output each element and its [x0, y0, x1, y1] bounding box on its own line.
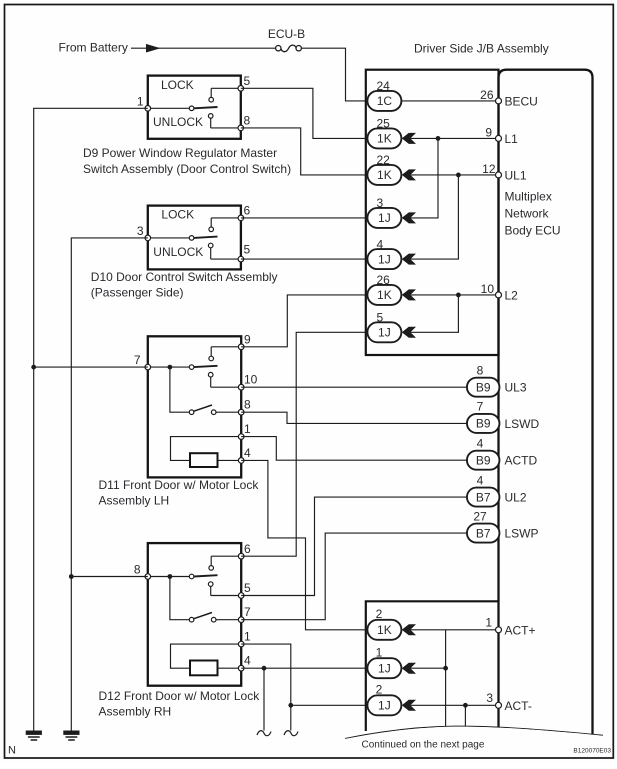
svg-text:B7: B7 [476, 526, 491, 540]
switch box D9 [148, 76, 241, 139]
svg-text:1: 1 [137, 94, 144, 108]
label UL3 [505, 381, 527, 395]
svg-text:5: 5 [244, 581, 251, 595]
arrow into 1J(1) [402, 663, 416, 674]
wire from battery to fuse [131, 44, 276, 53]
svg-text:26: 26 [377, 273, 391, 287]
svg-text:5: 5 [244, 243, 251, 257]
svg-text:7: 7 [134, 353, 141, 367]
junction dot ACT net [443, 666, 448, 671]
wire D11 pin7 to pivot [148, 366, 190, 368]
switch box D11 [148, 336, 241, 477]
svg-text:1: 1 [376, 645, 383, 659]
svg-text:Assembly RH: Assembly RH [99, 704, 172, 718]
switch arm D9 [189, 106, 217, 111]
ground G1 [26, 731, 42, 741]
label LSWD [505, 417, 540, 431]
wire D11 pin8 to connector B9 LSWD [241, 412, 467, 423]
wire D10 pin5 to connector 1J(4) [241, 258, 368, 260]
key switch D11 [189, 405, 241, 415]
wire L1 branch to 1J(3) [411, 138, 438, 218]
contact D11 unlock [208, 372, 241, 387]
junction block J/B box upper [366, 70, 499, 355]
switch arm D12 selector [189, 574, 217, 579]
svg-text:L1: L1 [505, 132, 519, 146]
pin 10 L2 of ECU [481, 282, 519, 303]
label UNLOCK (D10) [153, 245, 203, 259]
svg-text:N: N [8, 745, 16, 757]
wire D12 pin1 to connector 1J(2) [241, 644, 367, 705]
svg-text:9: 9 [244, 333, 251, 347]
svg-text:4: 4 [377, 237, 384, 251]
wire 1K(26) to ECU L2 [411, 294, 499, 296]
label LSWP [505, 527, 539, 541]
squiggle continuation mark right [284, 731, 298, 736]
label LOCK (D10) [161, 208, 194, 222]
pin 8 of D12 [134, 563, 151, 580]
svg-text:1J: 1J [378, 699, 391, 713]
pin 12 UL1 of ECU [482, 162, 527, 183]
wire rail B from D10 pin3 to ground [71, 238, 148, 731]
svg-text:ECU-B: ECU-B [268, 27, 305, 41]
wire fuse to connector 1C [301, 48, 367, 101]
svg-text:10: 10 [244, 373, 258, 387]
contact D9 lock [209, 88, 241, 102]
pin 8 of D9 [238, 113, 251, 130]
svg-text:25: 25 [377, 117, 391, 131]
wire connector B7 UL2 to D12 pin5 [241, 497, 467, 595]
wire 1K(25) to ECU L1 [411, 137, 499, 139]
wire rail B to D12 pin8 [71, 576, 148, 578]
svg-text:UNLOCK: UNLOCK [153, 115, 203, 129]
junction dot ACT- net [463, 703, 468, 708]
svg-text:3: 3 [137, 224, 144, 238]
svg-text:D11 Front Door w/ Motor Lock: D11 Front Door w/ Motor Lock [99, 478, 260, 492]
wire 1J(1) to ACT+ net [411, 667, 446, 669]
svg-text:1J: 1J [378, 211, 391, 225]
pin 1 of D11 [238, 422, 251, 439]
svg-text:B7: B7 [476, 490, 491, 504]
arrow into 1J(2) [402, 700, 416, 711]
Multiplex Network Body ECU box [499, 70, 593, 735]
arrow into 1J(3) [402, 212, 416, 223]
wire continuation below pin4-D12 node [263, 668, 265, 730]
svg-text:1: 1 [244, 630, 251, 644]
connector B9 pin 4 ACTD [467, 437, 500, 470]
svg-text:D9 Power Window Regulator Mast: D9 Power Window Regulator Master [83, 146, 277, 160]
svg-text:4: 4 [244, 654, 251, 668]
pin 1 of D12 [238, 630, 251, 647]
svg-text:UNLOCK: UNLOCK [153, 245, 203, 259]
svg-text:D10 Door Control Switch Assemb: D10 Door Control Switch Assembly [91, 270, 278, 284]
svg-text:1K: 1K [377, 132, 392, 146]
svg-text:ACT+: ACT+ [505, 623, 536, 637]
label UL2 [505, 491, 527, 505]
svg-text:3: 3 [486, 691, 493, 705]
junction dot L2 net [456, 293, 461, 298]
svg-text:8: 8 [244, 398, 251, 412]
junction dot rail B [69, 574, 74, 579]
svg-text:27: 27 [473, 509, 487, 523]
switch box D10 [148, 206, 241, 270]
svg-text:6: 6 [244, 203, 251, 217]
switch arm D11 selector [189, 365, 217, 370]
connector 1C pin 24 [367, 79, 401, 111]
key switch D12 [189, 613, 241, 623]
wire D11 pin1 to motor [171, 437, 242, 461]
page tear wavy line [345, 726, 603, 738]
label N [8, 745, 16, 757]
svg-text:4: 4 [477, 473, 484, 487]
arrow into 1K(26) [402, 289, 416, 300]
svg-text:BECU: BECU [505, 94, 538, 108]
connector 1K pin 2 [367, 607, 401, 640]
pin 6 of D10 [238, 203, 250, 220]
pin 5 of D9 [238, 74, 251, 91]
connector 1K pin 26 [367, 273, 401, 305]
fuse ECU-B [268, 27, 305, 51]
wire continuation below 1J(2) node [290, 705, 292, 730]
svg-text:LOCK: LOCK [161, 78, 194, 92]
wire D11 dot to key switch [170, 367, 189, 412]
svg-text:1C: 1C [377, 94, 393, 108]
svg-text:(Passenger Side): (Passenger Side) [91, 286, 184, 300]
white mask below tear [345, 727, 603, 756]
contact D11 lock [209, 347, 241, 361]
contact D9 unlock [208, 114, 240, 128]
wire D10 pin6 to connector 1J(3) [241, 217, 368, 219]
svg-text:Network: Network [505, 207, 550, 221]
switch arm D10 [189, 236, 217, 241]
switch box D12 [148, 543, 241, 686]
svg-text:1: 1 [485, 615, 492, 629]
svg-text:4: 4 [477, 437, 484, 451]
pin 5 of D12 [238, 581, 251, 598]
label From Battery [59, 41, 128, 55]
svg-text:UL3: UL3 [505, 381, 527, 395]
label LOCK (D9) [161, 78, 194, 92]
junction block J/B box lower [366, 601, 499, 731]
svg-text:1K: 1K [377, 623, 392, 637]
svg-text:9: 9 [485, 125, 492, 139]
pin 10 of D11 [238, 373, 257, 390]
svg-text:22: 22 [377, 153, 391, 167]
svg-text:24: 24 [377, 79, 391, 93]
svg-text:3: 3 [377, 196, 384, 210]
wire rail A from D9 pin1 to ground [34, 108, 148, 730]
wire D11 pin10 to connector B9 UL3 [241, 386, 467, 388]
svg-text:B9: B9 [476, 381, 491, 395]
junction dot rail A [31, 365, 36, 370]
wire UL1 branch to 1J(4) [411, 175, 459, 259]
label Driver Side J/B Assembly [414, 41, 549, 55]
pin 7 of D12 [238, 605, 251, 622]
wire 1K(22) to ECU UL1 [411, 174, 499, 176]
wire D11 pin4 to connector 1K(2) [241, 460, 367, 629]
wire D11 pin9 to connector 1K(26) [241, 295, 367, 347]
connector 1J pin 1 [367, 645, 401, 678]
wire L2 branch to 1J(5) [411, 295, 459, 332]
wire 1J(2) to ECU ACT- [411, 704, 499, 706]
svg-text:8: 8 [244, 113, 251, 127]
svg-text:LSWD: LSWD [505, 417, 540, 431]
wire connector 1J(5) to D12 pin6 [241, 332, 367, 556]
svg-text:2: 2 [376, 607, 383, 621]
label Continued on the next page [362, 740, 485, 751]
pin 5 of D10 [238, 243, 250, 262]
wire D12 dot to key switch [170, 577, 189, 620]
junction dot UL1 net [456, 173, 461, 178]
squiggle continuation mark left [257, 731, 271, 736]
arrow into 1J(5) [402, 327, 416, 338]
pin 7 of D11 [134, 353, 151, 370]
pin 9 of D11 [238, 333, 251, 350]
connector 1K pin 22 [367, 153, 401, 185]
pin 1 of D9 [137, 94, 151, 111]
svg-text:ACT-: ACT- [505, 699, 532, 713]
connector 1J pin 4 [367, 237, 401, 269]
connector 1J pin 5 [367, 311, 401, 343]
svg-text:12: 12 [482, 162, 496, 176]
svg-text:8: 8 [477, 364, 484, 378]
svg-text:UL2: UL2 [505, 491, 527, 505]
junction dot D11 internal [168, 365, 173, 370]
svg-text:ACTD: ACTD [505, 454, 538, 468]
svg-text:Driver Side J/B Assembly: Driver Side J/B Assembly [414, 41, 549, 55]
svg-text:UL1: UL1 [505, 168, 527, 182]
pin 26 BECU of ECU [480, 88, 538, 109]
svg-text:From Battery: From Battery [59, 41, 128, 55]
arrow into 1J(4) [402, 254, 416, 265]
connector B7 pin 27 LSWP [467, 509, 500, 542]
svg-text:D12 Front Door w/ Motor Lock: D12 Front Door w/ Motor Lock [99, 689, 261, 703]
wire D9 pin5 to connector 1K(25) [241, 88, 368, 138]
wire ACT- vertical [464, 705, 466, 732]
svg-text:Switch Assembly (Door Control: Switch Assembly (Door Control Switch) [83, 162, 291, 176]
label D9 [83, 146, 291, 176]
svg-text:1J: 1J [378, 252, 391, 266]
wire D12 pin1 to motor [171, 644, 242, 668]
svg-text:Multiplex: Multiplex [505, 190, 552, 204]
connector B9 pin 8 UL3 [467, 364, 500, 397]
junction dot D12 internal [168, 574, 173, 579]
svg-text:Body ECU: Body ECU [505, 224, 561, 238]
pin 4 of D12 [238, 654, 251, 671]
svg-text:1K: 1K [377, 288, 392, 302]
svg-text:Continued on the next page: Continued on the next page [362, 740, 485, 751]
wire D9 common pin1 to pivot [148, 107, 190, 109]
connector B9 pin 7 LSWD [467, 400, 500, 433]
wire D12 pin8 to pivot [148, 576, 190, 578]
wire D11 pin1 to connector B9 ACTD [241, 437, 467, 461]
svg-text:4: 4 [244, 446, 251, 460]
junction dot L1 net [436, 136, 441, 141]
label UNLOCK (D9) [153, 115, 203, 129]
label ACTD [505, 454, 538, 468]
label Multiplex Network Body ECU [505, 190, 561, 238]
pin 8 of D11 [238, 398, 251, 415]
label D12 [99, 689, 261, 719]
arrow into 1K(2) [402, 624, 416, 635]
connector 1K pin 25 [367, 117, 401, 149]
contact D12 unlock [208, 582, 241, 596]
label D10 [91, 270, 278, 300]
contact D10 unlock [208, 243, 241, 259]
svg-text:LOCK: LOCK [161, 208, 194, 222]
svg-text:1: 1 [244, 422, 251, 436]
wire ACT vertical [445, 630, 447, 730]
label D11 [99, 478, 260, 508]
svg-text:7: 7 [244, 605, 251, 619]
ground G2 [63, 731, 79, 741]
svg-text:1J: 1J [378, 662, 391, 676]
pin 9 L1 of ECU [485, 125, 518, 146]
arrow into 1K(25) [402, 133, 416, 144]
pin 1 ACT+ of ECU [485, 615, 535, 637]
wire 1C to ECU BECU [401, 100, 498, 102]
motor D11 [190, 453, 241, 467]
svg-text:Assembly LH: Assembly LH [99, 494, 170, 508]
connector B7 pin 4 UL2 [467, 473, 500, 506]
svg-text:26: 26 [480, 88, 494, 102]
svg-text:L2: L2 [505, 288, 519, 302]
svg-text:LSWP: LSWP [505, 527, 539, 541]
svg-text:8: 8 [134, 563, 141, 577]
svg-text:6: 6 [244, 542, 251, 556]
motor D12 [190, 661, 241, 676]
wire D12 pin4 to connector 1J(1) [241, 667, 367, 669]
pin 6 of D12 [238, 542, 251, 559]
connector 1J pin 3 [367, 196, 401, 228]
svg-text:5: 5 [377, 311, 384, 325]
connector 1J pin 2 [367, 682, 401, 715]
junction dot node pin1-D12 branch [288, 703, 293, 708]
wire 1K(2) to ECU ACT+ [411, 629, 499, 631]
wire connector B7 LSWP to D12 pin7 [241, 533, 467, 620]
svg-text:1J: 1J [378, 326, 391, 340]
wire D10 common pin3 to pivot [148, 237, 190, 239]
wire D9 pin8 to connector 1K(22) [241, 128, 368, 175]
contact D10 lock [209, 218, 241, 232]
arrow into 1K(22) [402, 169, 416, 180]
svg-text:1K: 1K [377, 168, 392, 182]
svg-text:2: 2 [376, 682, 383, 696]
pin 3 of D10 [137, 224, 151, 241]
junction dot node pin4-D12 branch [262, 666, 267, 671]
svg-text:B9: B9 [476, 454, 491, 468]
contact D12 lock [209, 556, 241, 570]
svg-text:7: 7 [477, 400, 484, 414]
svg-text:B120070E03: B120070E03 [573, 748, 611, 755]
pin 4 of D11 [238, 446, 251, 463]
svg-text:B9: B9 [476, 417, 491, 431]
label B120070E03 [573, 748, 611, 755]
pin 3 ACT- of ECU [486, 691, 532, 713]
svg-text:10: 10 [481, 282, 495, 296]
wire rail A to D11 pin7 [34, 366, 148, 368]
svg-text:5: 5 [244, 74, 251, 88]
